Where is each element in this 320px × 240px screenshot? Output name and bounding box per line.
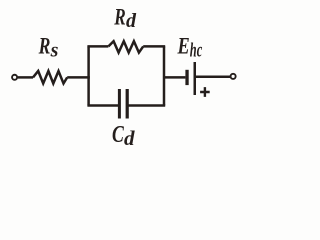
wire (18, 76, 33, 79)
wire right vertical of box (163, 46, 166, 105)
svg-text:d: d (124, 126, 135, 150)
wire to terminal (196, 76, 230, 79)
wire top right (143, 45, 165, 48)
plus sign (200, 87, 210, 97)
svg-text:d: d (126, 10, 137, 32)
wire bottom left (87, 104, 119, 107)
svg-text:C: C (112, 121, 124, 148)
battery Ehc positive plate (194, 62, 197, 95)
battery Ehc negative plate (185, 70, 188, 85)
terminal right (231, 74, 236, 79)
svg-text:R: R (114, 4, 126, 29)
svg-text:R: R (38, 33, 51, 58)
wire to battery (164, 76, 185, 79)
wire top left (87, 45, 108, 48)
wire left vertical of box (87, 46, 90, 105)
resistor Rd (108, 41, 143, 52)
svg-text:E: E (177, 33, 190, 58)
svg-text:hc: hc (190, 39, 202, 61)
svg-text:s: s (50, 39, 59, 61)
capacitor Cd plate left (118, 89, 121, 119)
terminal left (12, 75, 17, 80)
wire bottom right (128, 104, 165, 107)
capacitor Cd plate right (126, 89, 129, 119)
wire (67, 76, 90, 79)
resistor Rs (33, 71, 67, 84)
